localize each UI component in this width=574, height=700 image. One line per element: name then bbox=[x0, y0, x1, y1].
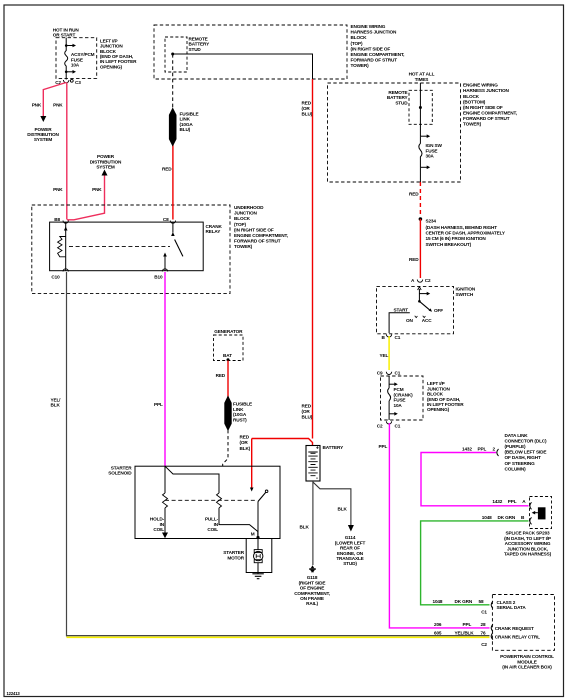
label RED (OR BLU) bbox=[302, 101, 313, 117]
connector pin 58 bbox=[491, 601, 493, 608]
connector terminal C10 bbox=[51, 269, 68, 280]
label splice S234 bbox=[426, 219, 506, 248]
svg-text:OR START: OR START bbox=[53, 33, 76, 38]
svg-text:206: 206 bbox=[434, 622, 442, 627]
connector at DLC bbox=[497, 449, 499, 456]
ignition switch pivot bbox=[418, 300, 421, 303]
ground symbol under starter motor bbox=[252, 574, 263, 579]
wire dashed from remote battery stud to fusible link bbox=[172, 54, 174, 109]
svg-text:C10: C10 bbox=[51, 274, 60, 279]
splice pack bus bar bbox=[532, 507, 546, 519]
arrow from power distribution source bbox=[102, 170, 108, 176]
svg-text:RED: RED bbox=[409, 192, 419, 197]
wire branch arrow below fuse bbox=[420, 166, 430, 170]
label 206 PPL 28 bbox=[434, 622, 486, 627]
connector terminal B8 bbox=[54, 217, 68, 223]
svg-text:SWITCH BREAKOUT): SWITCH BREAKOUT) bbox=[426, 242, 472, 247]
label RED (OR BLK) bbox=[240, 434, 251, 451]
svg-text:B: B bbox=[521, 515, 525, 520]
label 1432 PPL A bbox=[492, 499, 526, 504]
svg-text:BLOCK: BLOCK bbox=[463, 94, 480, 99]
svg-text:B: B bbox=[382, 335, 386, 340]
wire PNK main vertical to crank relay B8 bbox=[66, 83, 68, 220]
fusible link (10GA RUST) bbox=[225, 397, 231, 431]
svg-text:(TOP): (TOP) bbox=[234, 222, 247, 227]
svg-text:FORWARD OF STRUT: FORWARD OF STRUT bbox=[234, 238, 281, 243]
relay switch contact from B10 bbox=[163, 253, 167, 271]
wire below PCM fuse bbox=[388, 401, 390, 420]
node stud 2 junction dot bbox=[419, 106, 422, 109]
label power distribution system bbox=[27, 127, 59, 142]
svg-text:DATA LINK: DATA LINK bbox=[505, 433, 529, 438]
label RED (OR BLU) lower bbox=[302, 404, 313, 420]
wire branch arrow above fuse bbox=[420, 134, 430, 138]
generator dashed enclosure bbox=[214, 335, 244, 361]
svg-text:BLK: BLK bbox=[51, 403, 61, 408]
svg-text:COLUMN): COLUMN) bbox=[505, 466, 527, 471]
svg-text:ENGINE WIRING: ENGINE WIRING bbox=[463, 83, 498, 88]
svg-text:FORWARD OF STRUT: FORWARD OF STRUT bbox=[463, 116, 510, 121]
wire DK GRN from splice pack to PCM bbox=[421, 521, 529, 605]
solenoid switch blade bbox=[258, 490, 268, 502]
svg-text:YEL/BLK: YEL/BLK bbox=[455, 630, 475, 635]
wire RED from generator bbox=[227, 361, 229, 398]
arrow to power distribution system bbox=[40, 116, 46, 122]
left I/P junction block (fuse box) dashed enclosure bbox=[56, 38, 97, 79]
label 605 YEL/BLK 76 bbox=[434, 630, 486, 635]
svg-text:PNK: PNK bbox=[32, 103, 42, 108]
node junction dot top of fuse bbox=[65, 44, 68, 47]
powertrain control module dashed enclosure bbox=[492, 595, 554, 651]
svg-text:PPL: PPL bbox=[379, 444, 388, 449]
wire PNK second feed diagonal to B8 bbox=[67, 176, 105, 220]
wire hold-in coil to ground bbox=[164, 508, 166, 534]
ground G118 symbol bbox=[309, 565, 316, 572]
svg-text:TIMES: TIMES bbox=[415, 77, 429, 82]
svg-text:S234: S234 bbox=[426, 219, 437, 224]
svg-text:COIL: COIL bbox=[207, 527, 218, 532]
svg-text:B8: B8 bbox=[54, 217, 60, 222]
svg-text:-: - bbox=[316, 476, 318, 482]
ignition switch START contact wire bbox=[389, 313, 410, 333]
svg-text:CENTER OF DASH, APPROXIMATELY: CENTER OF DASH, APPROXIMATELY bbox=[426, 231, 506, 236]
wire from stud to right and down bbox=[173, 54, 313, 79]
wire PNK left branch to power distribution bbox=[43, 83, 66, 118]
svg-text:PPL: PPL bbox=[508, 499, 517, 504]
wire BLK battery to G114 bbox=[313, 482, 351, 526]
connector pin 76 bbox=[491, 633, 493, 640]
node stud junction dot bbox=[171, 53, 174, 56]
svg-text:C8: C8 bbox=[163, 217, 169, 222]
svg-text:OF DASH, RIGHT: OF DASH, RIGHT bbox=[505, 455, 541, 460]
node HOT AT ALL TIMES bbox=[409, 72, 435, 82]
label G114 bbox=[335, 535, 366, 566]
ignition switch input contact bbox=[418, 287, 422, 302]
svg-text:TAPED ON HARNESS): TAPED ON HARNESS) bbox=[504, 552, 552, 557]
svg-text:CRANK RELAY CTRL: CRANK RELAY CTRL bbox=[495, 634, 540, 639]
value label PCM (CRANK) FUSE 10A bbox=[394, 387, 414, 408]
svg-text:(OR: (OR bbox=[302, 106, 311, 111]
label splice pack SP203 bbox=[504, 531, 552, 557]
svg-text:ENGINE COMPARTMENT,: ENGINE COMPARTMENT, bbox=[234, 233, 288, 238]
svg-text:FORWARD OF STRUT: FORWARD OF STRUT bbox=[351, 57, 398, 62]
svg-text:B10: B10 bbox=[154, 274, 163, 279]
svg-text:COIL: COIL bbox=[153, 527, 164, 532]
wire YEL/BLK bottom run black stripe bbox=[67, 635, 490, 637]
svg-text:(IN RIGHT SIDE OF: (IN RIGHT SIDE OF bbox=[351, 46, 391, 51]
svg-text:C2: C2 bbox=[377, 423, 383, 428]
pull-in coil bbox=[217, 493, 222, 508]
svg-text:1432: 1432 bbox=[462, 446, 472, 451]
svg-text:STUD): STUD) bbox=[343, 561, 357, 566]
svg-text:+: + bbox=[316, 446, 319, 452]
label HOLD-IN COIL bbox=[150, 517, 165, 532]
svg-text:DK GRN: DK GRN bbox=[455, 599, 473, 604]
value label ACSY/PCM FUSE 10A bbox=[71, 52, 95, 67]
wire RED to ignition switch bbox=[419, 219, 421, 278]
battery bbox=[306, 446, 320, 482]
svg-text:BLOCK: BLOCK bbox=[351, 35, 368, 40]
fuse ACSY/PCM 10A symbol bbox=[65, 46, 68, 72]
svg-text:ENGINE COMPARTMENT,: ENGINE COMPARTMENT, bbox=[351, 52, 405, 57]
label G118 bbox=[294, 575, 330, 606]
connector pin 28 bbox=[491, 624, 493, 631]
remote battery stud dashed box bbox=[165, 37, 187, 72]
wire fuse output to box bottom bbox=[419, 167, 421, 182]
svg-text:ENGINE COMPARTMENT,: ENGINE COMPARTMENT, bbox=[463, 111, 517, 116]
svg-text:RED: RED bbox=[302, 404, 312, 409]
node HOT IN RUN OR START bbox=[53, 28, 80, 38]
wire pull-in coil branch bbox=[165, 466, 219, 493]
wire branch arrow bottom bbox=[66, 70, 76, 74]
svg-text:A: A bbox=[522, 499, 526, 504]
label 1048 DK GRN B bbox=[482, 515, 525, 520]
relay switch contact from C8 bbox=[171, 222, 175, 236]
svg-text:1048: 1048 bbox=[433, 599, 443, 604]
svg-text:(PURPLE): (PURPLE) bbox=[505, 444, 527, 449]
relay coil (crank relay) bbox=[58, 222, 68, 271]
svg-text:UNDERHOOD: UNDERHOOD bbox=[234, 205, 264, 210]
connector C1 terminal C9 at left I/P junction block 2 bbox=[377, 370, 401, 375]
svg-text:TOWER): TOWER) bbox=[463, 122, 482, 127]
connector terminal B10 bbox=[154, 269, 167, 279]
label fusible link bbox=[180, 112, 199, 133]
svg-text:BAT: BAT bbox=[223, 353, 232, 358]
svg-text:(DASH HARNESS, BEHIND RIGHT: (DASH HARNESS, BEHIND RIGHT bbox=[426, 225, 498, 230]
label STARTER MOTOR bbox=[223, 550, 245, 560]
svg-text:MOTOR: MOTOR bbox=[227, 555, 244, 560]
svg-text:10A: 10A bbox=[71, 63, 80, 68]
splice pack SP203 dashed enclosure bbox=[530, 497, 552, 529]
label remote battery stud 2 bbox=[387, 90, 409, 105]
svg-text:YEL: YEL bbox=[380, 353, 389, 358]
svg-text:RELAY: RELAY bbox=[206, 229, 222, 234]
label STARTER SOLENOID bbox=[108, 465, 132, 475]
ignition switch blade to OFF bbox=[419, 301, 432, 312]
wire YEL/BLK bottom run yellow stripe bbox=[67, 636, 490, 638]
node M junction dot bbox=[256, 536, 259, 539]
splice S234 bbox=[419, 217, 423, 221]
svg-text:(OR: (OR bbox=[302, 409, 311, 414]
svg-text:BLU): BLU) bbox=[302, 415, 313, 420]
fusible link (10GA BLU) bbox=[169, 109, 176, 146]
position tick ON bbox=[415, 316, 418, 318]
engine wiring harness junction block (bottom) dashed enclosure bbox=[328, 83, 461, 182]
label fusible link 2 bbox=[233, 402, 252, 423]
connector C1 terminal B at ignition switch bottom bbox=[382, 334, 401, 340]
relay K crank relay body bbox=[50, 222, 204, 271]
connector terminal C8 bbox=[163, 217, 176, 223]
svg-text:15 CM (6 IN) FROM IGNITION: 15 CM (6 IN) FROM IGNITION bbox=[426, 236, 487, 241]
branch arrow below PCM fuse bbox=[389, 412, 398, 416]
svg-text:HARNESS JUNCTION: HARNESS JUNCTION bbox=[351, 30, 398, 35]
wire pull-in coil to M terminal bbox=[219, 508, 258, 537]
connector port B bbox=[530, 517, 532, 524]
wire dashed from fusible link to solenoid bbox=[223, 430, 228, 466]
connector port A bbox=[530, 502, 532, 509]
wire into PCM crank fuse bbox=[388, 376, 390, 388]
wire RED down into solenoid contact bbox=[251, 439, 253, 489]
svg-text:RED: RED bbox=[216, 373, 226, 378]
label engine wiring harness junction block (bottom) bbox=[463, 83, 517, 127]
svg-text:RED: RED bbox=[409, 257, 419, 262]
branch arrow above PCM fuse bbox=[389, 382, 398, 386]
svg-text:28: 28 bbox=[481, 622, 486, 627]
svg-text:TOWER): TOWER) bbox=[234, 244, 253, 249]
svg-text:C1: C1 bbox=[481, 609, 487, 614]
engine wiring harness junction block (top) dashed enclosure bbox=[154, 25, 347, 79]
label CLASS 2 SERIAL DATA bbox=[497, 600, 527, 610]
value label IGN SW FUSE 30A bbox=[426, 143, 443, 158]
svg-text:BLOCK: BLOCK bbox=[234, 216, 251, 221]
wire branch arrow top bbox=[66, 44, 76, 48]
wire through IGN SW fuse bbox=[419, 83, 421, 136]
svg-text:BLK: BLK bbox=[300, 524, 310, 529]
wire PPL DLC branch bbox=[421, 453, 529, 506]
svg-text:(TOP): (TOP) bbox=[351, 41, 364, 46]
fuse IGN SW 30A symbol bbox=[419, 136, 422, 167]
svg-text:(IN AIR CLEANER BOX): (IN AIR CLEANER BOX) bbox=[502, 665, 552, 670]
svg-text:RED: RED bbox=[240, 434, 250, 439]
wire PPL from crank relay B10 to starter solenoid bbox=[164, 272, 166, 466]
solenoid linkage dashed bbox=[165, 499, 257, 501]
underhood junction block dashed enclosure bbox=[32, 205, 230, 294]
svg-text:STUD: STUD bbox=[189, 47, 202, 52]
svg-text:C1: C1 bbox=[395, 335, 401, 340]
wire fuse output bbox=[65, 72, 67, 80]
wire fuse input bbox=[65, 38, 67, 46]
svg-text:(BOTTOM): (BOTTOM) bbox=[463, 99, 486, 104]
label YEL/BLK bbox=[51, 397, 62, 407]
svg-text:PPL: PPL bbox=[463, 622, 472, 627]
wire RED dashed below junction block bbox=[419, 182, 421, 217]
svg-text:JUNCTION: JUNCTION bbox=[234, 211, 258, 216]
label IGNITION SWITCH bbox=[456, 287, 476, 297]
label engine wiring harness junction block (top) bbox=[351, 24, 405, 68]
svg-text:OPENING): OPENING) bbox=[100, 64, 123, 69]
label underhood junction block bbox=[234, 205, 288, 249]
svg-text:BATTERY: BATTERY bbox=[323, 445, 345, 450]
svg-text:C2: C2 bbox=[481, 642, 487, 647]
svg-text:STUD: STUD bbox=[395, 100, 408, 105]
ignition switch branch arrow bbox=[419, 292, 430, 296]
relay switch blade bbox=[175, 240, 183, 257]
label data link connector bbox=[505, 433, 548, 471]
starter motor enclosure bbox=[246, 539, 272, 573]
svg-text:(IN RIGHT SIDE OF: (IN RIGHT SIDE OF bbox=[463, 105, 503, 110]
svg-text:DK GRN: DK GRN bbox=[498, 515, 516, 520]
label 1048 DK GRN 58 bbox=[433, 599, 484, 604]
starter motor symbol bbox=[254, 539, 263, 574]
svg-text:BLK): BLK) bbox=[240, 446, 251, 451]
wire BLK battery to G118 bbox=[312, 481, 314, 565]
svg-text:RED: RED bbox=[162, 167, 172, 172]
connector C2 terminal A at ignition switch bbox=[411, 278, 431, 283]
wire RED from C8 up to fusible link bbox=[172, 145, 174, 220]
arrow to G114 bbox=[348, 525, 354, 532]
svg-text:HARNESS JUNCTION: HARNESS JUNCTION bbox=[463, 88, 510, 93]
svg-text:A: A bbox=[411, 278, 415, 283]
svg-text:RAIL): RAIL) bbox=[306, 601, 318, 606]
svg-text:SWITCH: SWITCH bbox=[456, 292, 474, 297]
svg-text:SYSTEM: SYSTEM bbox=[96, 165, 115, 170]
node BAT terminal dot bbox=[227, 358, 230, 361]
ignition switch dashed enclosure bbox=[377, 286, 454, 333]
connector C1 terminal C2 at fuse block bottom bbox=[377, 421, 401, 428]
svg-text:CONNECTOR (DLC): CONNECTOR (DLC) bbox=[505, 439, 548, 444]
label power distribution system (source) bbox=[90, 154, 122, 169]
wire M terminal bbox=[257, 502, 259, 539]
relay linkage dashed bbox=[69, 245, 170, 247]
wire YEL/BLK from crank relay C10 down bbox=[66, 272, 68, 636]
svg-text:TOWER): TOWER) bbox=[351, 63, 370, 68]
svg-text:C1: C1 bbox=[395, 423, 401, 428]
wire hold-in coil branch bbox=[164, 466, 166, 493]
svg-text:1048: 1048 bbox=[482, 515, 492, 520]
starter solenoid enclosure bbox=[135, 466, 280, 538]
svg-text:ENGINE WIRING: ENGINE WIRING bbox=[351, 24, 386, 29]
connector C2 at fuse box bottom bbox=[63, 80, 69, 83]
svg-text:605: 605 bbox=[434, 630, 442, 635]
svg-text:RED: RED bbox=[302, 101, 312, 106]
svg-text:OPENING): OPENING) bbox=[427, 407, 450, 412]
svg-text:GENERATOR: GENERATOR bbox=[214, 329, 243, 334]
label CRANK RELAY bbox=[206, 224, 223, 234]
node junction dot bottom of fuse bbox=[65, 71, 68, 74]
label PULL-IN COIL bbox=[205, 517, 219, 532]
svg-text:PNK: PNK bbox=[53, 187, 63, 192]
label 1432 PPL 2 bbox=[462, 446, 496, 451]
label left I/P junction block bbox=[100, 38, 137, 69]
svg-text:122413: 122413 bbox=[7, 691, 21, 696]
svg-text:C3: C3 bbox=[75, 80, 81, 85]
ground arrow hold-in coil bbox=[162, 533, 168, 539]
svg-text:ACC: ACC bbox=[422, 318, 432, 323]
hold-in coil bbox=[163, 493, 168, 508]
svg-text:2: 2 bbox=[493, 446, 496, 451]
label left I/P junction block 2 bbox=[427, 381, 464, 412]
svg-text:(BELOW LEFT SIDE: (BELOW LEFT SIDE bbox=[505, 450, 547, 455]
remote battery stud 2 dashed box bbox=[409, 90, 432, 124]
svg-text:RUST): RUST) bbox=[233, 417, 247, 422]
svg-text:OFF: OFF bbox=[434, 308, 443, 313]
svg-text:START: START bbox=[394, 307, 409, 312]
wire RED (OR BLU) main vertical bbox=[312, 79, 314, 439]
wire PPL from fuse to PCM crank request bbox=[389, 423, 489, 628]
label remote battery stud bbox=[189, 37, 211, 52]
wire YEL bbox=[388, 336, 390, 370]
svg-text:SOLENOID: SOLENOID bbox=[108, 471, 132, 476]
svg-text:PPL: PPL bbox=[154, 402, 163, 407]
svg-text:CRANK REQUEST: CRANK REQUEST bbox=[495, 626, 534, 631]
svg-text:SYSTEM: SYSTEM bbox=[34, 137, 53, 142]
svg-text:SERIAL DATA: SERIAL DATA bbox=[497, 605, 527, 610]
svg-text:C2: C2 bbox=[425, 278, 431, 283]
svg-text:PNK: PNK bbox=[53, 103, 63, 108]
svg-text:58: 58 bbox=[479, 599, 484, 604]
svg-text:(IN RIGHT SIDE OF: (IN RIGHT SIDE OF bbox=[234, 227, 274, 232]
svg-text:10A: 10A bbox=[394, 403, 403, 408]
fuse PCM (CRANK) 10A symbol bbox=[388, 388, 391, 401]
solenoid fixed contact arrowhead bbox=[250, 488, 254, 492]
position tick ACC bbox=[423, 316, 426, 318]
svg-text:30A: 30A bbox=[426, 154, 435, 159]
svg-text:(OR: (OR bbox=[240, 440, 249, 445]
svg-text:1432: 1432 bbox=[492, 499, 502, 504]
left I/P junction block 2 dashed enclosure bbox=[381, 376, 424, 420]
svg-text:BLK: BLK bbox=[338, 506, 348, 511]
svg-text:BLU): BLU) bbox=[180, 127, 191, 132]
svg-text:BLU): BLU) bbox=[302, 112, 313, 117]
svg-text:PNK: PNK bbox=[92, 187, 102, 192]
svg-text:PPL: PPL bbox=[478, 446, 487, 451]
connector C3 symbol bbox=[70, 79, 73, 82]
svg-text:76: 76 bbox=[481, 630, 486, 635]
svg-text:OF STEERING: OF STEERING bbox=[505, 461, 536, 466]
svg-text:ON: ON bbox=[406, 318, 413, 323]
label powertrain control module bbox=[500, 654, 554, 669]
svg-text:C9: C9 bbox=[377, 370, 383, 375]
wire RED feed to solenoid and battery bbox=[252, 439, 313, 446]
svg-text:M: M bbox=[251, 531, 255, 536]
svg-text:C1: C1 bbox=[395, 370, 401, 375]
